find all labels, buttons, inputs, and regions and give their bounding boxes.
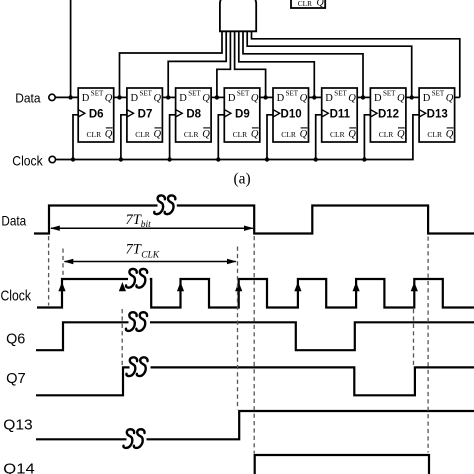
svg-text:SET: SET — [237, 90, 250, 98]
svg-text:CLR: CLR — [379, 130, 394, 139]
svg-text:Q: Q — [446, 93, 454, 104]
svg-text:Q: Q — [105, 129, 113, 140]
svg-text:D7: D7 — [138, 109, 153, 121]
svg-text:Q: Q — [397, 93, 405, 104]
svg-text:D10: D10 — [281, 109, 302, 121]
svg-text:SET: SET — [286, 90, 299, 98]
svg-text:D: D — [82, 93, 90, 104]
svg-text:SET: SET — [383, 90, 396, 98]
svg-text:Q: Q — [202, 129, 210, 140]
svg-text:D: D — [277, 93, 285, 104]
svg-text:Q: Q — [154, 93, 162, 104]
svg-text:Q: Q — [348, 129, 356, 140]
svg-text:Data: Data — [15, 91, 41, 106]
svg-text:Q6: Q6 — [6, 332, 25, 348]
svg-text:D12: D12 — [378, 109, 399, 121]
svg-text:Q: Q — [300, 93, 308, 104]
svg-text:Q: Q — [397, 129, 405, 140]
svg-text:CLR: CLR — [281, 130, 296, 139]
svg-text:D: D — [228, 93, 236, 104]
svg-text:D11: D11 — [330, 109, 351, 121]
svg-text:Q: Q — [251, 93, 259, 104]
svg-text:Clock: Clock — [12, 153, 43, 169]
svg-text:D: D — [374, 93, 382, 104]
svg-text:Q7: Q7 — [6, 371, 26, 387]
svg-text:Q: Q — [300, 129, 308, 140]
svg-text:bit: bit — [141, 220, 151, 230]
svg-text:D6: D6 — [89, 109, 104, 121]
svg-text:D: D — [423, 93, 431, 104]
svg-text:Q14: Q14 — [3, 461, 34, 474]
svg-text:Q: Q — [348, 93, 356, 104]
svg-text:Q13: Q13 — [3, 417, 32, 433]
svg-text:Q: Q — [446, 129, 454, 140]
svg-text:SET: SET — [91, 90, 104, 98]
svg-text:D8: D8 — [186, 109, 201, 121]
svg-text:D13: D13 — [427, 109, 448, 121]
svg-text:CLR: CLR — [233, 130, 248, 139]
svg-text:Q: Q — [154, 129, 162, 140]
svg-text:CLK: CLK — [141, 251, 160, 261]
svg-text:CLR: CLR — [184, 130, 199, 139]
svg-text:Q: Q — [202, 93, 210, 104]
svg-text:SET: SET — [188, 90, 201, 98]
svg-text:CLR: CLR — [427, 130, 442, 139]
svg-text:D: D — [325, 93, 333, 104]
svg-text:CLR: CLR — [330, 130, 345, 139]
svg-text:7T: 7T — [126, 242, 142, 258]
svg-text:CLR: CLR — [135, 130, 150, 139]
svg-text:CLR: CLR — [298, 0, 312, 8]
svg-text:Q: Q — [317, 0, 325, 9]
svg-text:Data: Data — [1, 213, 26, 229]
svg-text:Q: Q — [251, 129, 259, 140]
svg-text:SET: SET — [432, 90, 445, 98]
svg-text:CLR: CLR — [87, 130, 102, 139]
svg-text:(a): (a) — [234, 171, 251, 188]
svg-text:SET: SET — [140, 90, 153, 98]
svg-text:D: D — [131, 93, 139, 104]
svg-text:Clock: Clock — [1, 289, 32, 305]
svg-text:D9: D9 — [235, 109, 250, 121]
svg-text:Q: Q — [105, 93, 113, 104]
svg-text:D: D — [179, 93, 187, 104]
svg-text:7T: 7T — [126, 212, 142, 228]
svg-text:SET: SET — [334, 90, 347, 98]
